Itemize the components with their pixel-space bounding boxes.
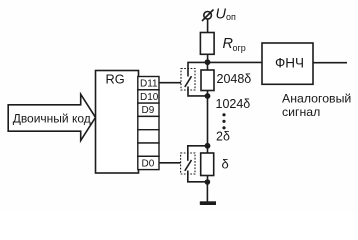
switch S0 dashed box <box>181 153 195 174</box>
wire FNC output <box>313 62 347 64</box>
switch S11 dashed box <box>181 69 195 91</box>
terminal Uop <box>202 10 214 22</box>
wire node C to resistor d top <box>207 146 209 153</box>
wire node A to resistor 2048 top <box>207 62 209 70</box>
register RG <box>96 71 139 174</box>
RG output cells <box>138 77 159 170</box>
svg-text:D9: D9 <box>142 105 155 116</box>
wire node B to node C <box>207 96 209 146</box>
wire Rogr to node A <box>207 54 209 62</box>
ground <box>200 201 216 205</box>
svg-text:D0: D0 <box>142 158 155 169</box>
wire node A to switch S11 top <box>188 62 208 68</box>
node C (junction dot) <box>205 143 211 149</box>
switch S0 contacts <box>185 153 192 174</box>
svg-text:δ: δ <box>222 157 229 172</box>
resistor 2048d <box>201 70 214 91</box>
svg-text:D10: D10 <box>140 92 159 103</box>
wire terminal to Rogr <box>207 19 209 32</box>
svg-text:D11: D11 <box>140 79 158 90</box>
svg-text:2048δ: 2048δ <box>217 72 252 86</box>
node D (junction dot) <box>205 179 211 185</box>
wire control D11 to S11 <box>159 82 181 84</box>
svg-text:Двоичный код: Двоичный код <box>13 111 91 125</box>
svg-text:2δ: 2δ <box>216 130 230 144</box>
svg-text:Аналоговый: Аналоговый <box>282 91 351 105</box>
svg-text:огр: огр <box>233 43 246 53</box>
wire node C to switch S0 top <box>188 146 208 153</box>
svg-text:сигнал: сигнал <box>282 105 320 119</box>
wire switch S0 bottom to node D <box>188 174 208 182</box>
wire resistor d to node D <box>207 176 209 183</box>
wire node D to ground <box>206 182 208 202</box>
svg-text:U: U <box>216 6 227 22</box>
wire control D0 to S0 <box>159 162 181 164</box>
input arrow (binary code) <box>8 94 95 140</box>
svg-text:ФНЧ: ФНЧ <box>275 56 304 71</box>
label Uop <box>216 6 237 22</box>
dots (omitted stages) <box>222 113 225 129</box>
node B (junction dot) <box>205 93 211 99</box>
wire node A to FNC input <box>208 61 263 63</box>
label Analogovy signal <box>282 91 351 119</box>
label Rogr <box>223 36 246 53</box>
resistor d <box>201 153 214 176</box>
resistor Rogr <box>200 33 214 55</box>
svg-text:оп: оп <box>226 12 236 22</box>
svg-text:RG: RG <box>106 72 125 87</box>
svg-text:1024δ: 1024δ <box>216 97 251 111</box>
switch S11 contacts <box>185 69 192 91</box>
wire resistor 2048 to node B <box>207 91 209 97</box>
block FNC <box>262 43 313 84</box>
node A (junction dot) <box>205 59 211 65</box>
wire switch S11 bottom to node B <box>188 90 208 96</box>
